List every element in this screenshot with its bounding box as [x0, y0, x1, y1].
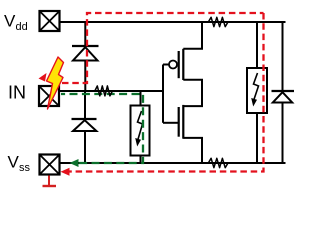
label Vdd	[4, 12, 28, 34]
diode D1 (IN to Vdd)	[72, 46, 99, 61]
resistor R2 on Vss rail	[205, 158, 231, 167]
label Vss	[8, 153, 31, 175]
wire: power clamp branch bottom	[256, 113, 258, 163]
snapback device box (local clamp)	[131, 106, 150, 156]
wire: IN line	[60, 90, 163, 92]
wire: diode D3 branch bottom	[282, 103, 284, 164]
wire: power clamp branch top	[256, 22, 258, 68]
green arrowhead on Vss rail	[70, 159, 79, 167]
resistor R1 on Vdd rail	[205, 17, 231, 26]
bolt arrow inside power clamp	[251, 73, 258, 107]
power clamp box	[247, 68, 267, 113]
svg-text:IN: IN	[8, 83, 26, 103]
red arrowhead at Vss pad	[61, 168, 70, 176]
svg-text:V: V	[4, 12, 16, 31]
pad Vss	[40, 155, 60, 175]
transistor NMOS M2	[163, 92, 202, 163]
wire: diode D3 branch top	[282, 22, 284, 91]
svg-text:ss: ss	[19, 162, 31, 174]
resistor R3 on IN line	[93, 86, 114, 96]
wire: lead to snapback box	[140, 91, 142, 106]
bolt arrow inside snapback box	[135, 111, 142, 147]
ESD current path (green dashed): pad through local clamp to Vss	[61, 94, 143, 163]
wire: Vss bottom rail	[60, 162, 286, 164]
ESD current path (red dashed): pad to Vdd diode, top rail, right clamp, back to Vss	[62, 13, 264, 172]
wire: snapback box to Vss rail	[140, 156, 142, 164]
pad Vdd	[40, 11, 60, 31]
ESD zap bolt at IN pad	[39, 57, 64, 109]
wire: diode D2 branch (Vss rail to IN line)	[84, 91, 86, 163]
ground (red) under Vss pad	[43, 176, 57, 187]
svg-text:dd: dd	[16, 21, 28, 33]
svg-text:V: V	[8, 153, 20, 172]
transistor PMOS M1	[163, 22, 202, 92]
wire: diode D1 branch (rail to IN line)	[84, 22, 86, 91]
diode D3 (Vss to Vdd, far right)	[272, 91, 295, 103]
wire: inverter common gate vertical	[162, 65, 164, 123]
diode D2 (Vss to IN)	[72, 119, 97, 131]
wire: Vdd top rail	[60, 21, 286, 23]
pad IN	[39, 86, 59, 106]
